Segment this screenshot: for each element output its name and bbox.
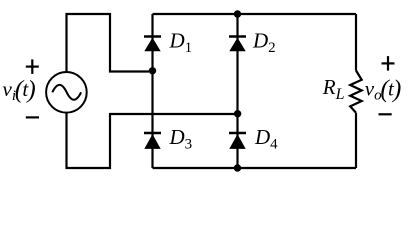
svg-text:D3: D3 — [169, 125, 193, 153]
svg-text:RL: RL — [322, 75, 345, 103]
svg-text:D4: D4 — [254, 125, 278, 153]
svg-text:vi(t): vi(t) — [3, 76, 36, 104]
diode D2 — [229, 37, 246, 52]
diode D4 — [229, 133, 246, 149]
wire: left bridge leg — [151, 14, 153, 168]
wire: top rail — [153, 13, 357, 15]
ac source vi — [46, 72, 87, 113]
label + (vi polarity) — [26, 59, 39, 74]
diode D3 — [144, 133, 161, 149]
svg-text:D1: D1 — [169, 29, 193, 57]
label − (vo polarity) — [379, 113, 392, 115]
wire: load branch top — [355, 14, 357, 71]
node: bottom rail / D4 junction — [234, 164, 241, 171]
label − (vi polarity) — [26, 116, 39, 118]
wire: load branch bottom — [355, 113, 357, 168]
node B: D2-D4 junction (source bottom input) — [234, 110, 241, 117]
wire: source bottom lead (down, right, up, to bridge right midpoint) — [67, 113, 238, 168]
wire: source top lead (up, right, down, to bridge left midpoint) — [67, 14, 153, 72]
node: top rail / D2 junction — [234, 10, 241, 17]
wire: right bridge leg — [236, 14, 238, 168]
svg-text:D2: D2 — [252, 29, 276, 57]
wire: bottom rail — [153, 167, 357, 169]
diode D1 — [144, 37, 161, 52]
label + (vo polarity) — [382, 56, 395, 71]
svg-text:vo(t): vo(t) — [365, 76, 402, 104]
node A: D1-D3 junction (source top input) — [149, 67, 156, 74]
resistor RL — [350, 71, 362, 113]
